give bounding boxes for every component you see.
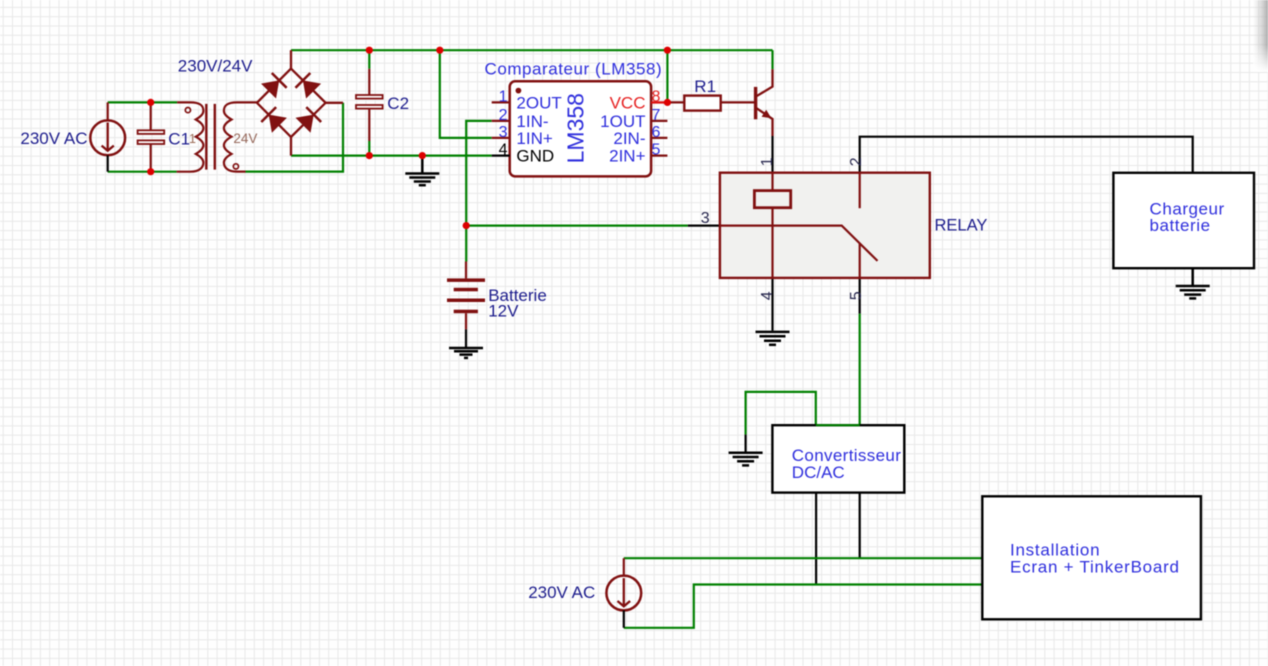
wire bbox=[859, 314, 861, 426]
wire bbox=[624, 557, 983, 559]
battery Batterie 12V bbox=[447, 262, 485, 348]
svg-text:2OUT: 2OUT bbox=[516, 93, 561, 112]
transformer phase dot (primary) bbox=[185, 108, 190, 113]
ground (near C2 bus) bbox=[405, 156, 439, 186]
U1 pin 8 lead bbox=[651, 101, 667, 103]
svg-text:2IN-: 2IN- bbox=[613, 129, 645, 148]
svg-text:2: 2 bbox=[848, 157, 865, 166]
U1 orientation dot bbox=[516, 88, 522, 94]
wire bbox=[815, 493, 817, 585]
wire bbox=[466, 121, 492, 262]
node (C1 bottom) bbox=[147, 168, 154, 175]
node (VCC branch / bus) bbox=[664, 47, 671, 54]
svg-text:8: 8 bbox=[652, 88, 661, 105]
svg-text:1: 1 bbox=[499, 88, 508, 105]
transistor Q1 (NPN) bbox=[754, 69, 773, 136]
svg-text:GND: GND bbox=[516, 147, 554, 166]
wire bbox=[859, 278, 861, 314]
svg-text:2: 2 bbox=[499, 107, 508, 124]
relay coil bbox=[754, 173, 790, 278]
node (pin3 branch / bus) bbox=[436, 47, 443, 54]
block: Convertisseur DC/AC bbox=[772, 425, 904, 492]
bridge diode (top-right) bbox=[295, 73, 321, 99]
svg-text:DC/AC: DC/AC bbox=[792, 463, 845, 482]
svg-text:230V/24V: 230V/24V bbox=[178, 56, 253, 75]
U1 pin 7 lead bbox=[651, 120, 667, 122]
node (VCC pin 8) bbox=[664, 99, 671, 106]
wire bbox=[688, 225, 721, 227]
transformer secondary winding bbox=[224, 102, 257, 171]
wire bbox=[860, 137, 1193, 173]
svg-text:3: 3 bbox=[499, 124, 508, 141]
wire bbox=[771, 50, 773, 69]
relay contact pin 2 bbox=[859, 173, 861, 209]
transformer core bbox=[206, 104, 215, 170]
svg-text:Comparateur (LM358): Comparateur (LM358) bbox=[485, 59, 663, 78]
relay box bbox=[720, 173, 930, 278]
svg-text:6: 6 bbox=[652, 124, 661, 141]
node (C2 top / bus) bbox=[366, 47, 373, 54]
AC voltage source 230V AC (bottom) bbox=[606, 558, 641, 628]
svg-text:4: 4 bbox=[499, 142, 508, 159]
node (battery / relay pin 3) bbox=[463, 222, 470, 229]
svg-text:230V AC: 230V AC bbox=[528, 583, 595, 602]
svg-text:batterie: batterie bbox=[1150, 216, 1211, 235]
U1 pin 4 lead bbox=[492, 155, 510, 157]
svg-text:VCC: VCC bbox=[610, 93, 646, 112]
transformer TR 230V/24V : primary winding bbox=[177, 102, 204, 171]
bridge diode (bottom-right) bbox=[296, 107, 322, 133]
svg-text:C1: C1 bbox=[168, 130, 190, 149]
wire bbox=[624, 585, 983, 628]
transformer phase dot (secondary) bbox=[233, 164, 238, 169]
wire bbox=[246, 103, 344, 172]
bridge diode (top-left) bbox=[261, 73, 287, 99]
U1 pin 6 lead bbox=[651, 137, 667, 139]
capacitor C1 bbox=[138, 102, 165, 171]
ground (convertisseur input) bbox=[729, 453, 763, 466]
node (C2 bottom / gnd bus) bbox=[366, 152, 373, 159]
svg-text:RELAY: RELAY bbox=[935, 217, 988, 235]
svg-text:230V AC: 230V AC bbox=[20, 129, 87, 148]
svg-text:Ecran + TinkerBoard: Ecran + TinkerBoard bbox=[1010, 558, 1180, 577]
wire bbox=[108, 171, 177, 173]
svg-text:R1: R1 bbox=[694, 77, 716, 96]
ground (relay pin 4) bbox=[756, 332, 790, 345]
svg-text:4: 4 bbox=[759, 291, 776, 300]
wire bbox=[291, 155, 492, 157]
svg-text:7: 7 bbox=[652, 107, 661, 124]
svg-text:1IN+: 1IN+ bbox=[516, 129, 552, 148]
node (gnd symbol / gnd bus) bbox=[419, 152, 426, 159]
wire bbox=[859, 493, 861, 559]
U1 pin 2 lead bbox=[492, 120, 510, 122]
svg-text:1: 1 bbox=[759, 157, 776, 166]
wire bbox=[746, 392, 816, 435]
wire bbox=[291, 49, 773, 51]
node (C1 top) bbox=[147, 99, 154, 106]
ground (chargeur) bbox=[1176, 268, 1210, 298]
resistor R1 bbox=[667, 96, 754, 111]
svg-text:2IN+: 2IN+ bbox=[609, 147, 645, 166]
svg-text:3: 3 bbox=[701, 210, 710, 227]
U1 pin 5 lead bbox=[651, 155, 667, 157]
wire bbox=[666, 50, 668, 102]
wire bbox=[771, 278, 773, 331]
svg-text:24V: 24V bbox=[233, 131, 257, 146]
window shadow band (top right edge) bbox=[1253, 0, 1268, 72]
wire bbox=[816, 424, 860, 426]
wire bbox=[771, 136, 773, 173]
svg-text:5: 5 bbox=[652, 142, 661, 159]
wire bbox=[108, 101, 177, 103]
block: Installation Ecran + TinkerBoard bbox=[982, 496, 1201, 619]
wire bbox=[440, 50, 492, 138]
wire bbox=[466, 225, 688, 227]
node junction dots bbox=[147, 47, 671, 230]
ground (battery) bbox=[449, 348, 483, 358]
svg-text:12V: 12V bbox=[488, 302, 519, 321]
svg-text:C2: C2 bbox=[387, 94, 409, 113]
svg-text:5: 5 bbox=[848, 291, 865, 300]
AC voltage source 230V AC (left) bbox=[90, 102, 125, 171]
U1 pin 3 lead bbox=[492, 137, 510, 139]
svg-text:1: 1 bbox=[189, 132, 196, 146]
relay contact pin 5 bbox=[859, 243, 861, 278]
svg-text:LM358: LM358 bbox=[563, 93, 589, 163]
wire bbox=[744, 435, 746, 452]
capacitor C2 bbox=[356, 50, 383, 155]
block: Chargeur batterie bbox=[1113, 173, 1254, 268]
relay common contact and switch arm bbox=[720, 226, 878, 261]
op-amp U1 LM358 body bbox=[510, 81, 651, 176]
bridge rectifier outline bbox=[257, 50, 343, 155]
U1 pin 1 lead bbox=[492, 101, 510, 103]
bridge diode (bottom-left) bbox=[261, 107, 287, 133]
